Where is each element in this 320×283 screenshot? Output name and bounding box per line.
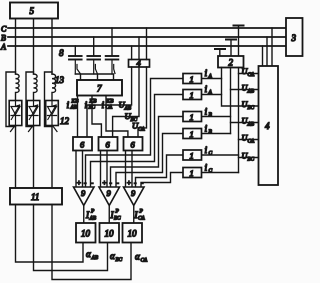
- block 10a: [76, 223, 96, 243]
- label I_CA^P: [134, 209, 146, 222]
- svg-text:АВ: АВ: [70, 105, 78, 111]
- label i_B row4: [205, 125, 213, 136]
- svg-text:A: A: [0, 43, 6, 52]
- comparator 9b: [99, 179, 120, 206]
- svg-text:Р: Р: [115, 209, 120, 215]
- label 8: [59, 48, 64, 58]
- current sensor 1 row3: [183, 112, 202, 123]
- wire U_AB to 6a: [87, 67, 132, 137]
- current sensor 1 row4: [183, 129, 202, 140]
- inductor L2 (13): [34, 74, 38, 101]
- svg-text:-: -: [117, 179, 120, 187]
- svg-text:12: 12: [60, 116, 70, 126]
- svg-text:+: +: [102, 179, 107, 187]
- current sensor 1 row6: [183, 168, 202, 179]
- capacitor tap 2b (bus B): [226, 40, 236, 57]
- svg-text:КВ: КВ: [71, 99, 80, 105]
- wire iCA from 7 to 6c: [106, 96, 128, 138]
- label block2 number: [229, 58, 234, 68]
- bypass wire branch 1: [6, 72, 16, 127]
- svg-text:КВ: КВ: [89, 99, 98, 105]
- current sensor 1 row2: [183, 90, 202, 101]
- label U_CA mid: [132, 121, 145, 133]
- svg-text:ВС: ВС: [248, 105, 255, 111]
- svg-text:i: i: [205, 69, 208, 79]
- label alpha_BC: [110, 251, 123, 263]
- block 5: [10, 3, 58, 19]
- label i_BC KB: [85, 99, 98, 112]
- label I_BC^P: [110, 209, 122, 222]
- wire V2 (2 to rows): [230, 68, 232, 134]
- label U_CA row1: [242, 67, 255, 78]
- block 10c: [123, 223, 143, 243]
- block 6c: [124, 137, 143, 151]
- gate wire branch 3: [52, 125, 57, 188]
- svg-text:13: 13: [55, 75, 65, 85]
- label i_B row3: [205, 108, 213, 119]
- wire U_BC row6 to block 4: [239, 157, 259, 159]
- label block6b number: [106, 140, 111, 150]
- label block7 number: [97, 84, 102, 94]
- current sensor 1 row5: [183, 150, 202, 161]
- svg-text:СА: СА: [138, 216, 145, 222]
- label i_CA KB: [102, 99, 115, 112]
- svg-text:10: 10: [105, 229, 115, 239]
- label U_CA row5: [242, 134, 255, 145]
- label i_C row5: [205, 146, 213, 157]
- wire 6c outputs to comparator 9c: [126, 151, 133, 188]
- wire U_BC to 6b: [113, 67, 139, 137]
- label block6a number: [80, 140, 85, 150]
- wire block4 tall to bus A: [262, 46, 264, 66]
- bypass wire branch 2: [26, 72, 34, 127]
- svg-text:-: -: [134, 179, 137, 187]
- label block5 number: [30, 6, 35, 16]
- wire U_CA row5 to block 4: [239, 139, 259, 141]
- svg-text:7: 7: [97, 84, 102, 94]
- wire sensor row6 to V3: [202, 172, 239, 174]
- svg-text:Р: Р: [90, 209, 95, 215]
- svg-text:ВС: ВС: [248, 157, 255, 163]
- label alpha_AB: [86, 249, 99, 261]
- stair wire W2 (sensor 1 row2 to 9a): [91, 95, 184, 188]
- label bus B: [1, 34, 6, 43]
- label i_C row6: [205, 164, 213, 175]
- comparator 9a: [74, 179, 95, 206]
- svg-text:8: 8: [59, 48, 64, 58]
- wire V3 (2 to rows): [238, 68, 240, 173]
- svg-text:АВ: АВ: [247, 89, 255, 95]
- stair wire W3 (sensor 1 row3 to 9b): [111, 117, 184, 188]
- wire rail 8 to block 7: [75, 74, 113, 80]
- label bus A: [0, 43, 6, 52]
- svg-text:+: +: [127, 179, 132, 187]
- svg-text:С: С: [209, 151, 213, 157]
- svg-text:Р: Р: [139, 209, 144, 215]
- svg-text:α: α: [110, 251, 115, 261]
- svg-text:i: i: [85, 101, 88, 111]
- capacitor tap 2a (bus A): [215, 49, 225, 56]
- bus C: [8, 27, 286, 29]
- svg-text:2: 2: [229, 58, 234, 68]
- block 11: [10, 188, 62, 205]
- wire V1 (2 to U_BC row): [222, 68, 259, 107]
- thyristor VS1 (12): [9, 101, 22, 126]
- comparator 9c: [124, 179, 145, 206]
- bus A: [8, 45, 286, 47]
- feedback wire alpha-CA to gate 3: [52, 205, 131, 280]
- svg-text:B: B: [1, 34, 6, 43]
- block 3: [286, 18, 303, 56]
- svg-text:+: +: [77, 179, 82, 187]
- block 6a: [73, 137, 92, 151]
- block 2: [218, 56, 244, 68]
- thyristor VS3 (12): [46, 101, 59, 126]
- label block6c number: [131, 140, 136, 150]
- svg-text:1: 1: [190, 90, 194, 100]
- wire 9b to 10b: [108, 206, 110, 224]
- gate wire branch 1: [11, 125, 16, 188]
- svg-text:СА: СА: [141, 258, 148, 264]
- wire 4small to bus C: [146, 28, 148, 60]
- feedback wire alpha-AB to gate 1: [16, 205, 84, 263]
- svg-text:10: 10: [81, 229, 91, 239]
- svg-text:ВС: ВС: [116, 257, 123, 263]
- svg-text:1: 1: [190, 168, 194, 178]
- svg-text:1: 1: [190, 74, 194, 84]
- svg-text:СА: СА: [138, 127, 145, 133]
- wire sensor row2 to V1: [202, 94, 222, 96]
- wire sensor row1 to V1: [202, 78, 222, 80]
- label U_AB mid: [119, 100, 132, 112]
- wire U_AB row4 to block 4: [231, 122, 259, 124]
- svg-text:i: i: [205, 108, 208, 118]
- svg-text:4: 4: [265, 121, 270, 131]
- capacitor divider 8a: [69, 46, 82, 74]
- wire iAB from 7 to 6a: [77, 96, 79, 138]
- wire U_CA to 6c: [138, 67, 147, 137]
- svg-text:α: α: [86, 249, 91, 259]
- svg-text:i: i: [67, 101, 70, 111]
- svg-text:11: 11: [31, 192, 39, 202]
- wire phase column 1 (box5 to valve branch): [15, 19, 17, 75]
- wire sensor row4 to V2: [202, 133, 231, 135]
- svg-text:А: А: [208, 74, 213, 80]
- block 6b: [99, 137, 118, 151]
- wire block4 tall to bus B: [266, 37, 268, 66]
- thyristor VS2 (12): [27, 101, 40, 126]
- block 4 (tall voltage block): [259, 66, 279, 185]
- wire iBC from 7 to 6b: [92, 96, 101, 138]
- label i_A row1: [205, 69, 213, 80]
- voltage transformer block 4 (small top): [129, 60, 150, 68]
- stair wire W4 (sensor 1 row4 to 9b): [116, 134, 183, 188]
- capacitor divider 8c: [106, 28, 119, 74]
- label i_A row2: [205, 85, 213, 96]
- svg-text:СА: СА: [248, 72, 255, 78]
- label U_AB row4: [242, 117, 255, 128]
- wire 6a outputs to comparator 9a: [76, 151, 83, 188]
- svg-text:i: i: [205, 85, 208, 95]
- inductor L3 (13): [52, 74, 56, 101]
- label U_AB row2: [242, 84, 255, 95]
- svg-text:СА: СА: [106, 105, 113, 111]
- label U_BC mid: [125, 111, 138, 123]
- svg-text:1: 1: [190, 112, 194, 122]
- inductor L1 (13): [16, 74, 20, 101]
- svg-text:C: C: [1, 25, 7, 34]
- svg-text:5: 5: [30, 6, 35, 16]
- wire phase column 3: [51, 19, 53, 75]
- svg-text:АВ: АВ: [91, 255, 99, 261]
- wire U_CA row1 to block 4: [239, 73, 259, 75]
- wire sensor row5 to V3: [202, 154, 239, 156]
- svg-text:АВ: АВ: [89, 216, 97, 222]
- svg-text:10: 10: [128, 229, 138, 239]
- svg-text:α: α: [135, 252, 140, 262]
- svg-text:i: i: [205, 164, 208, 174]
- label I_AB^P: [85, 209, 97, 222]
- wire 6b outputs to comparator 9b: [101, 151, 108, 188]
- wire 9c to 10c: [133, 206, 135, 224]
- stair wire W5 (sensor 1 row5 to 9c): [136, 155, 184, 187]
- wire sensor row3 to V2: [202, 116, 231, 118]
- svg-text:С: С: [209, 168, 213, 174]
- bypass wire branch 3: [45, 72, 53, 127]
- capacitor divider 8b: [87, 37, 100, 74]
- block 10b: [100, 223, 120, 243]
- svg-text:-: -: [84, 179, 87, 187]
- svg-text:А: А: [208, 90, 213, 96]
- svg-text:i: i: [102, 101, 105, 111]
- wire 4small to bus B: [138, 37, 140, 60]
- wire phase column 2: [33, 19, 35, 75]
- svg-text:СА: СА: [248, 139, 255, 145]
- svg-text:1: 1: [190, 129, 194, 139]
- block 7: [77, 80, 122, 96]
- stair wire W1 (sensor 1 row1 to 9a): [86, 79, 184, 188]
- label 13: [55, 75, 65, 85]
- current sensor 1 row1: [183, 74, 202, 85]
- bus B: [8, 36, 286, 38]
- gate wire branch 2: [29, 125, 34, 188]
- svg-text:i: i: [205, 125, 208, 135]
- capacitor tap 2c (bus C): [234, 26, 244, 57]
- wire U_AB row2 to block 4: [231, 89, 259, 91]
- label i_AB KB: [67, 99, 80, 112]
- wire block4 tall to bus C: [271, 28, 273, 66]
- label block11 number: [31, 192, 39, 202]
- label U_BC row3: [242, 100, 255, 111]
- svg-text:i: i: [205, 146, 208, 156]
- svg-text:3: 3: [291, 33, 297, 43]
- label U_BC row6: [242, 152, 255, 163]
- svg-text:ВС: ВС: [114, 216, 121, 222]
- svg-text:-: -: [110, 179, 113, 187]
- label bus C: [1, 25, 7, 34]
- svg-text:-: -: [91, 179, 94, 187]
- svg-text:АВ: АВ: [247, 122, 255, 128]
- label 12: [60, 116, 70, 126]
- stair wire W6 (sensor 1 row6 to 9c): [141, 173, 183, 188]
- wire 9a to 10a: [83, 206, 85, 224]
- svg-text:КВ: КВ: [106, 99, 115, 105]
- label block4small number: [137, 58, 142, 68]
- wire 4small to bus A: [131, 46, 133, 60]
- label alpha_CA: [135, 252, 148, 264]
- svg-text:1: 1: [190, 151, 194, 161]
- feedback wire alpha-BC to gate 2: [34, 205, 108, 271]
- svg-text:ВС: ВС: [89, 105, 96, 111]
